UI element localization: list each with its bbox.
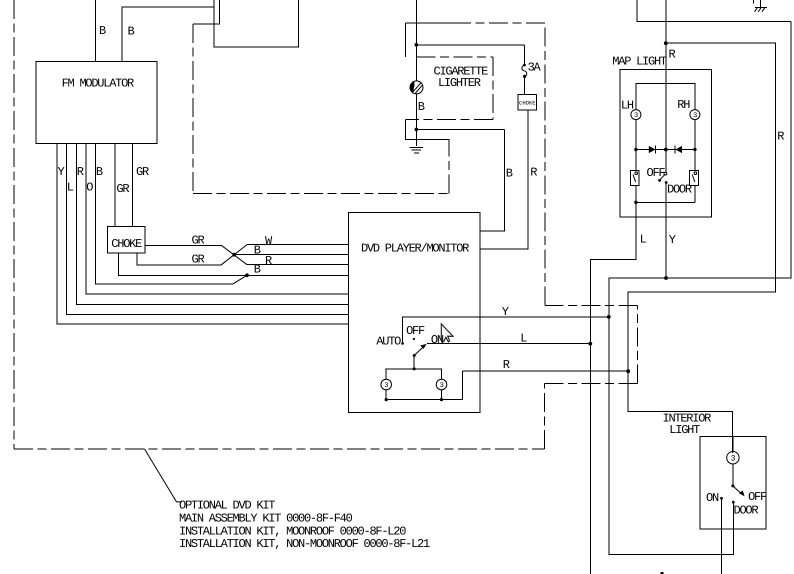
svg-text:LIGHT: LIGHT bbox=[669, 423, 700, 437]
svg-text:R: R bbox=[503, 358, 510, 372]
svg-text:B: B bbox=[128, 25, 135, 39]
svg-text:O: O bbox=[86, 181, 93, 195]
svg-text:CHOKE: CHOKE bbox=[111, 237, 142, 251]
svg-text:Y: Y bbox=[502, 305, 509, 319]
svg-text:L: L bbox=[67, 181, 74, 195]
svg-text:GR: GR bbox=[116, 182, 129, 196]
svg-text:3: 3 bbox=[440, 382, 444, 390]
svg-text:B: B bbox=[254, 263, 261, 277]
svg-text:GR: GR bbox=[136, 165, 149, 179]
svg-text:3: 3 bbox=[384, 382, 388, 390]
svg-text:3: 3 bbox=[634, 112, 638, 120]
svg-text:3: 3 bbox=[693, 112, 697, 120]
svg-text:AUTO: AUTO bbox=[376, 335, 401, 349]
svg-text:OFF: OFF bbox=[647, 166, 666, 180]
svg-text:DVD PLAYER/MONITOR: DVD PLAYER/MONITOR bbox=[361, 242, 469, 256]
svg-text:3: 3 bbox=[731, 455, 736, 464]
svg-text:ON: ON bbox=[706, 491, 719, 505]
svg-text:R: R bbox=[669, 48, 676, 62]
svg-text:3A: 3A bbox=[528, 61, 542, 75]
svg-text:OFF: OFF bbox=[748, 490, 767, 504]
svg-text:B: B bbox=[96, 165, 103, 179]
svg-text:MAP LIGHT: MAP LIGHT bbox=[612, 55, 667, 69]
svg-text:LIGHTER: LIGHTER bbox=[438, 76, 481, 90]
svg-text:CHOKE: CHOKE bbox=[519, 99, 536, 106]
svg-text:R: R bbox=[77, 165, 84, 179]
svg-text:B: B bbox=[254, 244, 261, 258]
svg-text:OFF: OFF bbox=[406, 324, 425, 338]
svg-text:L: L bbox=[640, 233, 647, 247]
svg-text:R: R bbox=[265, 254, 272, 268]
svg-text:DOOR: DOOR bbox=[667, 183, 692, 197]
svg-text:GR: GR bbox=[192, 234, 205, 248]
svg-text:RH: RH bbox=[677, 98, 690, 112]
svg-text:B: B bbox=[506, 167, 513, 181]
svg-text:DOOR: DOOR bbox=[734, 503, 759, 517]
svg-text:R: R bbox=[777, 130, 784, 144]
svg-text:B: B bbox=[418, 100, 425, 114]
svg-text:Y: Y bbox=[669, 233, 676, 247]
svg-text:INSTALLATION KIT, NON-MOONROOF: INSTALLATION KIT, NON-MOONROOF 0000-8F-L… bbox=[179, 537, 430, 551]
svg-text:FM MODULATOR: FM MODULATOR bbox=[62, 77, 134, 91]
svg-text:GR: GR bbox=[192, 253, 205, 267]
svg-text:L: L bbox=[520, 332, 527, 346]
svg-text:LH: LH bbox=[621, 99, 634, 113]
svg-text:R: R bbox=[530, 166, 537, 180]
svg-text:Y: Y bbox=[58, 165, 65, 179]
svg-text:ON: ON bbox=[431, 333, 444, 347]
svg-text:B: B bbox=[99, 24, 106, 38]
